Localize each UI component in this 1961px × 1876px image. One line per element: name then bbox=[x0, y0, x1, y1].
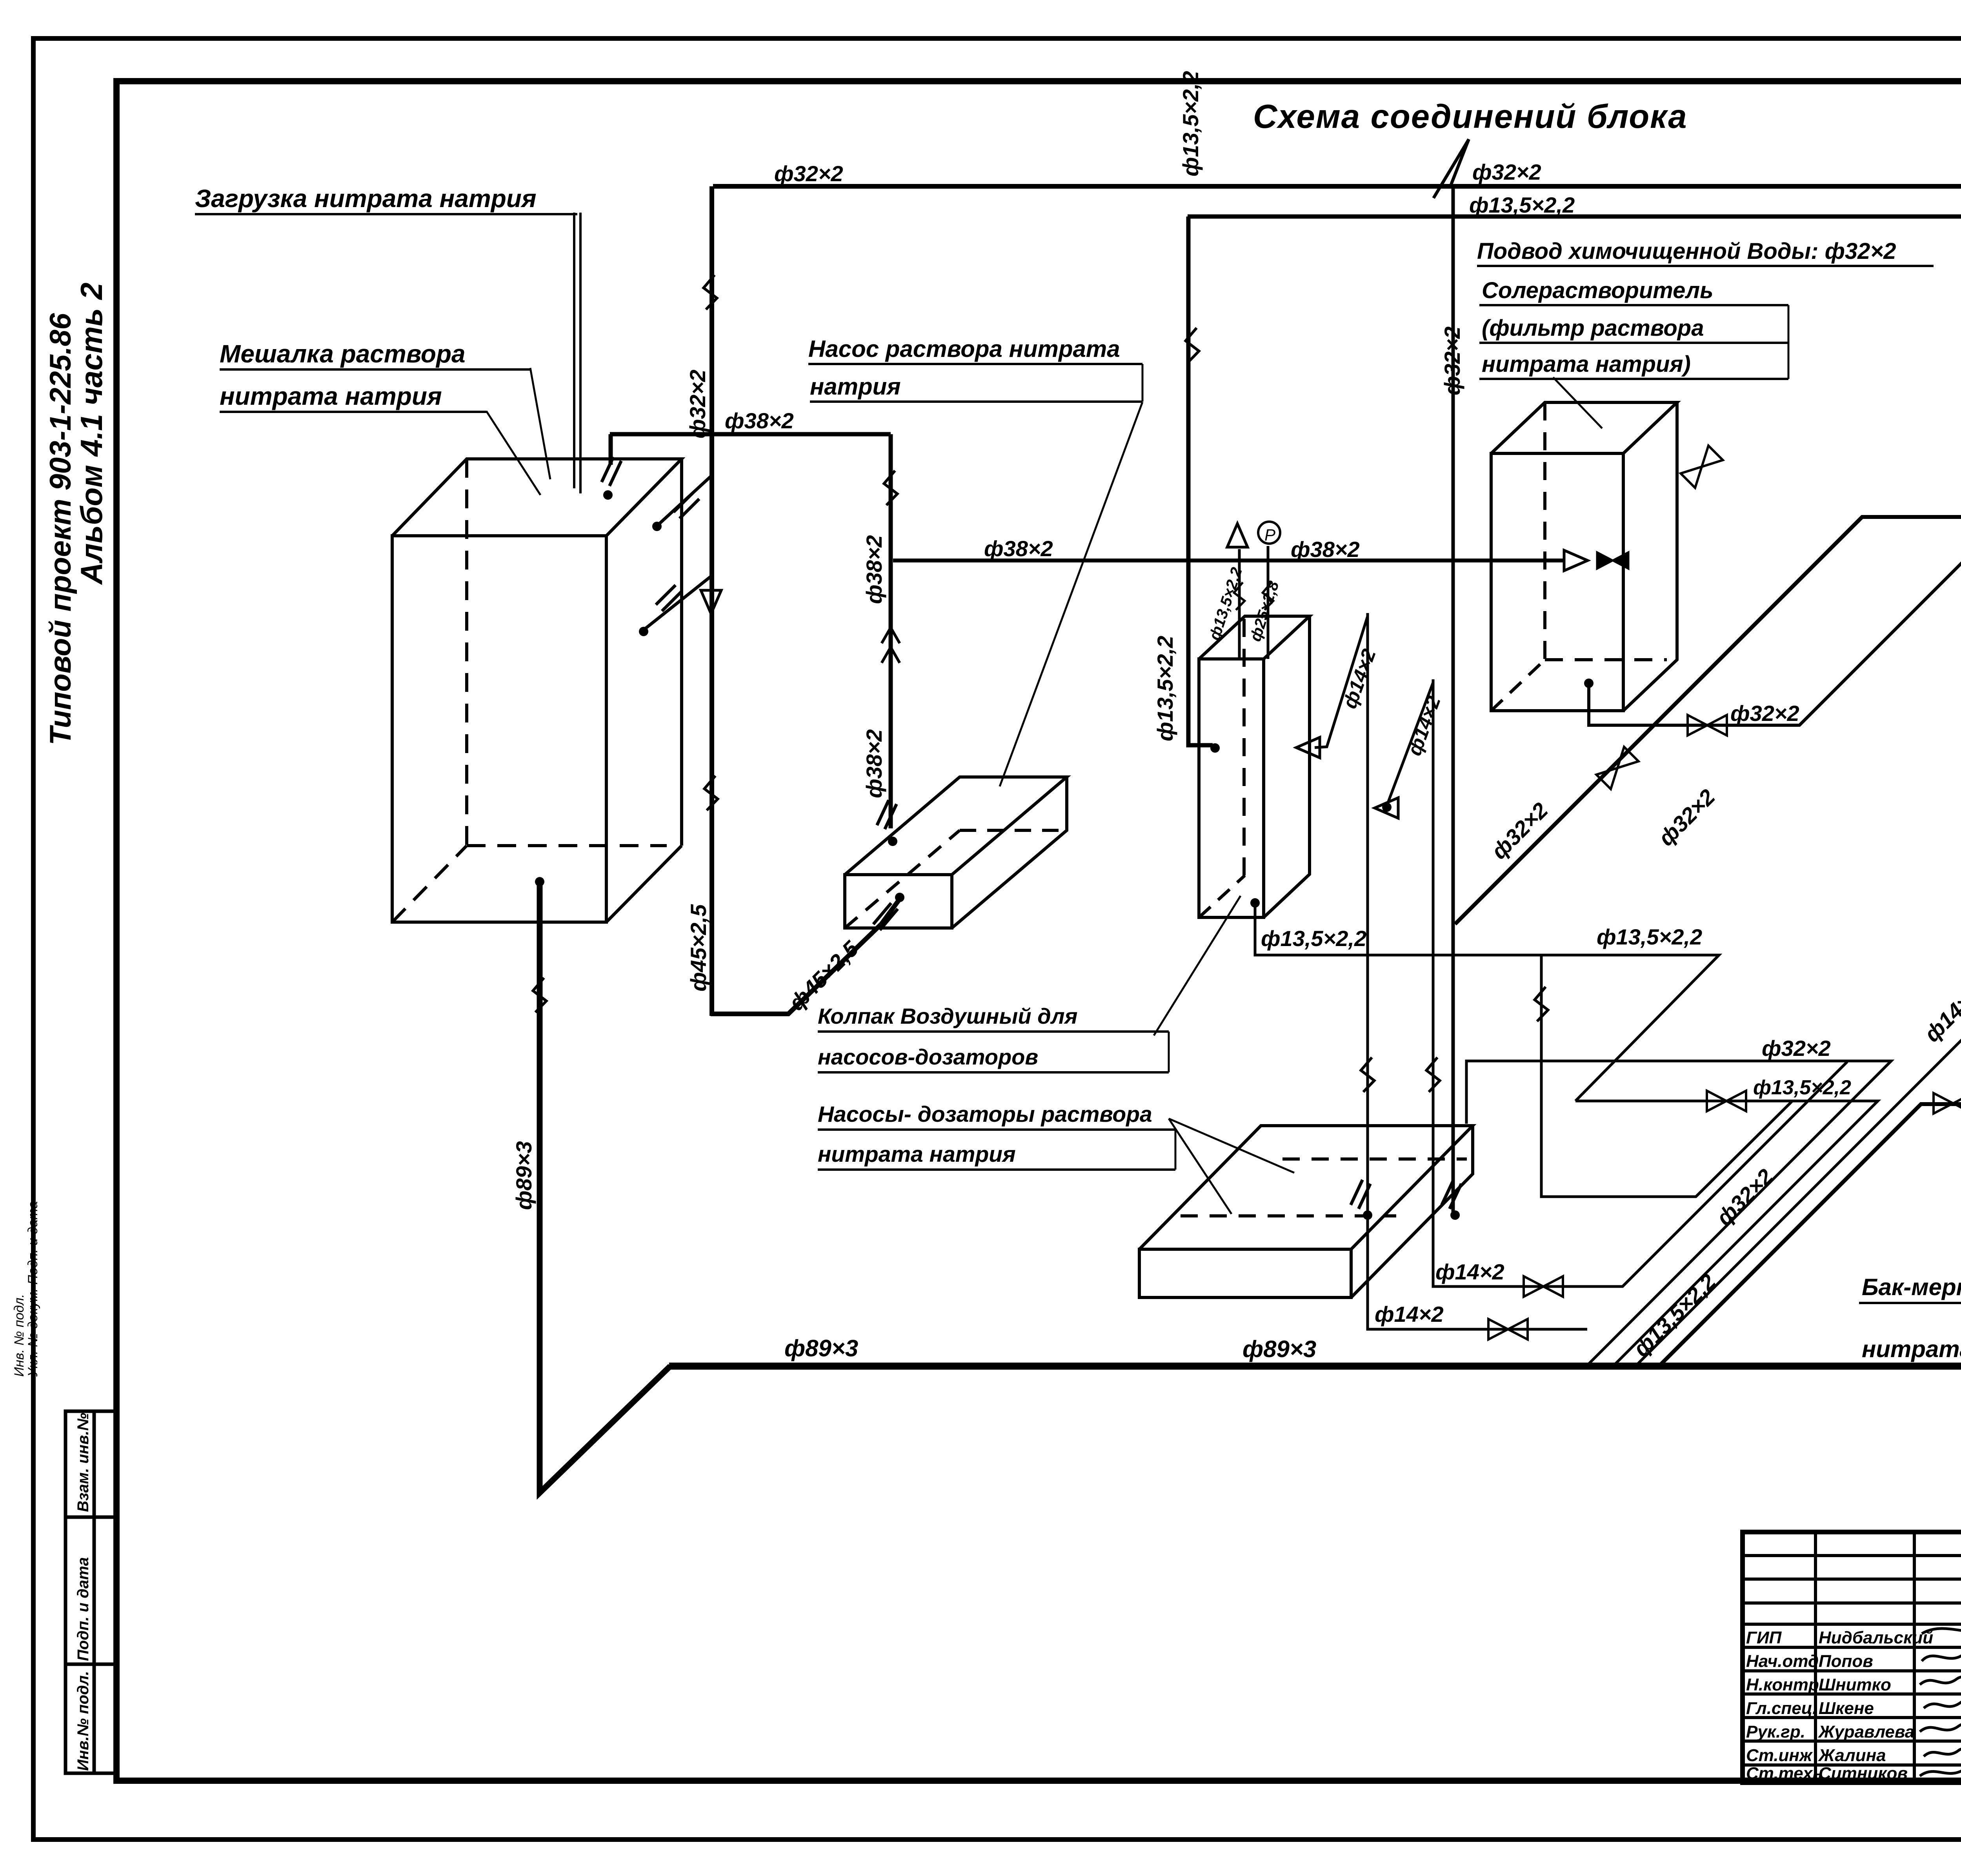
pipe ф13,5×2,2 top main bbox=[1188, 217, 1961, 745]
tank: колпак воздушный (small middle tank) bbox=[1199, 616, 1310, 917]
pipe size labels (rotated) bbox=[511, 71, 1961, 1361]
pipe size labels (horizontal) bbox=[725, 160, 1961, 1401]
svg-text:Колпак Воздушный для: Колпак Воздушный для bbox=[818, 1004, 1078, 1028]
svg-text:насосов-дозаторов: насосов-дозаторов bbox=[818, 1044, 1038, 1069]
svg-text:ф14×2: ф14×2 bbox=[1403, 693, 1445, 759]
callout: Насосы-дозаторы раствора нитрата натрия bbox=[818, 1102, 1175, 1170]
svg-text:(фильтр раствора: (фильтр раствора bbox=[1482, 315, 1704, 341]
svg-text:ф38×2: ф38×2 bbox=[862, 729, 886, 798]
pipe ф89×3 bottom main bbox=[669, 1363, 1961, 1370]
svg-text:ф89×3: ф89×3 bbox=[511, 1141, 536, 1210]
left margin rotated text: Типовой проект 903-1-225.86 bbox=[44, 313, 77, 745]
title block name rows bbox=[1746, 1628, 1933, 1783]
svg-text:ф32×2: ф32×2 bbox=[1762, 1036, 1831, 1061]
connection dots bbox=[535, 490, 1961, 1220]
svg-text:ф13,5×2,2: ф13,5×2,2 bbox=[1469, 193, 1575, 217]
svg-text:ф13,5×2,2: ф13,5×2,2 bbox=[1153, 636, 1177, 741]
tank: насосы-дозаторы (doser tray) bbox=[1139, 1126, 1473, 1297]
pipe ф45×2,5 vertical (left) bbox=[881, 899, 900, 924]
svg-text:ф25×2,8: ф25×2,8 bbox=[1247, 579, 1282, 643]
svg-text:Журавлева: Журавлева bbox=[1818, 1722, 1914, 1741]
valves (bowties) bbox=[1488, 446, 1961, 1339]
callout: Насос раствора нитрата натрия bbox=[808, 336, 1142, 402]
pipe break symbols bbox=[533, 275, 1961, 1092]
pipe ф13,5×2,2 lower run bbox=[1575, 1101, 1878, 1366]
svg-text:Ст.инж: Ст.инж bbox=[1746, 1746, 1813, 1765]
svg-text:нитрата натрия: нитрата натрия bbox=[1862, 1336, 1961, 1362]
callout: Солерастворитель (фильтр раствора нитрата натрия) bbox=[1479, 278, 1788, 379]
pipe ф32×2 diagonal to right elbow bbox=[1455, 517, 1961, 924]
svg-text:ф38×2: ф38×2 bbox=[1291, 537, 1360, 562]
pressure gauge bbox=[1258, 522, 1280, 544]
svg-text:Мешалка раствора: Мешалка раствора bbox=[220, 340, 466, 368]
svg-text:натрия: натрия bbox=[810, 373, 901, 400]
svg-text:ф13,5×2,2: ф13,5×2,2 bbox=[1628, 1269, 1721, 1361]
svg-text:Н.контр.: Н.контр. bbox=[1746, 1675, 1824, 1694]
svg-text:ГИП: ГИП bbox=[1746, 1628, 1782, 1647]
callout: Загрузка нитрата натрия bbox=[195, 184, 577, 214]
svg-text:Загрузка нитрата натрия: Загрузка нитрата натрия bbox=[195, 184, 537, 213]
tank: мешалка раствора нитрата натрия (left big tank) bbox=[392, 459, 682, 922]
callout: Колпак воздушный для насосов-дозаторов bbox=[818, 1004, 1169, 1072]
pipe ф32×2 top main bbox=[711, 186, 1961, 1016]
svg-text:ф14×2: ф14×2 bbox=[1375, 1302, 1444, 1326]
pipe ф32×2 middle run bbox=[1466, 1061, 1891, 1366]
pipe ф14×2 to bak-мерник bbox=[1635, 902, 1961, 1366]
pipe ф89×3 left drain bbox=[540, 881, 670, 1493]
svg-text:Бак-мерник раствора: Бак-мерник раствора bbox=[1862, 1274, 1961, 1300]
title block main frame bbox=[1743, 1532, 1961, 1783]
svg-text:нитрата натрия): нитрата натрия) bbox=[1482, 351, 1691, 377]
left margin rotated text: Альбом 4.1 часть 2 bbox=[74, 282, 109, 585]
tank: насос раствора нитрата натрия (pump tray) bbox=[845, 777, 1067, 928]
pipe ф14×2 doser line 2 bbox=[1387, 679, 1847, 1286]
svg-text:ф13,5×2,2: ф13,5×2,2 bbox=[1753, 1076, 1851, 1099]
svg-text:ф32×2: ф32×2 bbox=[1654, 784, 1720, 851]
svg-text:ф13,5×2,2: ф13,5×2,2 bbox=[1597, 924, 1702, 949]
title block grid bbox=[1743, 1532, 1961, 1783]
svg-text:ф14×2: ф14×2 bbox=[1339, 646, 1380, 711]
загрузка chute lines bbox=[574, 213, 580, 493]
svg-text:Шкене: Шкене bbox=[1819, 1699, 1874, 1718]
svg-text:ф14×2: ф14×2 bbox=[1919, 981, 1961, 1047]
tank: солерастворитель (filter tank) bbox=[1491, 402, 1677, 711]
callout: Подвод химочищенной воды bbox=[1477, 238, 1934, 266]
svg-text:Жалина: Жалина bbox=[1818, 1746, 1886, 1765]
left margin small stamp column texts bbox=[12, 1201, 40, 1377]
svg-text:ф13,5×2,2: ф13,5×2,2 bbox=[1178, 71, 1203, 177]
signatures squiggles bbox=[1920, 1620, 1961, 1776]
мешалка tank connection stubs bbox=[644, 476, 713, 630]
filter pointer + bak-мерник pointer + other leaders bbox=[486, 222, 1961, 1428]
pipe ф32×2 doser discharge right bbox=[1541, 955, 1792, 1197]
svg-text:ф38×2: ф38×2 bbox=[984, 536, 1053, 561]
svg-text:ф32×2: ф32×2 bbox=[1486, 798, 1553, 864]
side table rotated labels bbox=[75, 1413, 92, 1771]
callout: Мешалка раствора нитрата натрия bbox=[220, 340, 530, 412]
svg-text:ф38×2: ф38×2 bbox=[862, 535, 886, 604]
svg-text:Шнитко: Шнитко bbox=[1819, 1675, 1891, 1694]
svg-text:Укл. № докум. Подп. и дата: Укл. № докум. Подп. и дата bbox=[25, 1201, 40, 1377]
svg-text:ф45×2,5: ф45×2,5 bbox=[686, 904, 711, 992]
svg-text:Нидбальский: Нидбальский bbox=[1819, 1628, 1933, 1647]
open arrows bbox=[701, 524, 1588, 818]
svg-text:Схема соединений блока: Схема соединений блока bbox=[1253, 98, 1688, 135]
svg-text:Нач.отд: Нач.отд bbox=[1746, 1652, 1819, 1671]
svg-text:ф32×2: ф32×2 bbox=[685, 369, 710, 439]
svg-text:ф32×2: ф32×2 bbox=[1472, 160, 1541, 184]
svg-text:ф14×2: ф14×2 bbox=[1435, 1259, 1504, 1284]
callout: Бак-мерник раствора нитрата натрия bbox=[1859, 1274, 1961, 1364]
svg-text:Инв. № подл.: Инв. № подл. bbox=[12, 1294, 27, 1377]
svg-text:Инв.№ подл.: Инв.№ подл. bbox=[75, 1671, 92, 1771]
pipe ф38×2 upper run bbox=[610, 434, 891, 828]
svg-text:нитрата натрия: нитрата натрия bbox=[818, 1142, 1016, 1167]
svg-text:Солерастворитель: Солерастворитель bbox=[1482, 278, 1714, 303]
svg-text:ф89×3: ф89×3 bbox=[784, 1335, 858, 1361]
svg-text:Рук.гр.: Рук.гр. bbox=[1746, 1722, 1805, 1741]
svg-text:Ст.техн: Ст.техн bbox=[1746, 1764, 1823, 1783]
pipe ф13,5×2,2 small tank bottom run bbox=[1255, 905, 1719, 1101]
svg-text:ф32×2: ф32×2 bbox=[774, 161, 843, 186]
svg-text:Гл.спец.: Гл.спец. bbox=[1746, 1699, 1817, 1718]
svg-text:нитрата натрия: нитрата натрия bbox=[220, 382, 442, 410]
slash break on pipe A bbox=[1433, 139, 1469, 198]
pipe ф38×2 horizontal to filter bbox=[893, 559, 1565, 562]
svg-text:ф89×3: ф89×3 bbox=[1242, 1336, 1316, 1362]
svg-text:ф38×2: ф38×2 bbox=[725, 408, 794, 433]
svg-text:ф32×2: ф32×2 bbox=[1730, 701, 1799, 726]
svg-text:ф32×2: ф32×2 bbox=[1440, 326, 1464, 395]
small tank gauge and vent stems bbox=[1239, 546, 1268, 659]
svg-text:Типовой проект 903-1-225.86: Типовой проект 903-1-225.86 bbox=[44, 313, 77, 745]
svg-text:Взам. инв.№: Взам. инв.№ bbox=[75, 1413, 92, 1512]
svg-text:Подп. и дата: Подп. и дата bbox=[75, 1557, 92, 1661]
svg-text:Попов: Попов bbox=[1819, 1652, 1873, 1671]
drawing title: Схема соединений блока bbox=[1253, 98, 1688, 135]
svg-text:Ситников: Ситников bbox=[1819, 1764, 1908, 1783]
svg-text:Насос раствора нитрата: Насос раствора нитрата bbox=[808, 336, 1120, 362]
weld tick marks bbox=[602, 457, 1961, 1209]
svg-text:P: P bbox=[1264, 526, 1275, 544]
svg-text:ф13,5×2,2: ф13,5×2,2 bbox=[1261, 926, 1366, 951]
pipe ф57×2,5 to bak-мерник bbox=[1659, 907, 1961, 1366]
svg-text:Насосы- дозаторы раствора: Насосы- дозаторы раствора bbox=[818, 1102, 1152, 1127]
pipe ф32×2 vertical from break bbox=[1452, 184, 1455, 1212]
svg-text:Альбом 4.1 часть 2: Альбом 4.1 часть 2 bbox=[74, 282, 109, 585]
pipe ф14×2 doser line 1 bbox=[1315, 613, 1587, 1329]
left bottom side-table bbox=[65, 1411, 118, 1773]
svg-text:ф32×2: ф32×2 bbox=[1712, 1164, 1778, 1230]
break chevrons on ф38 drop bbox=[882, 628, 900, 663]
svg-text:Подвод химочищенной Воды: ф: Подвод химочищенной Воды: ф32×2 bbox=[1477, 238, 1896, 264]
pipe ф32×2 filter outlet bbox=[1589, 528, 1961, 725]
